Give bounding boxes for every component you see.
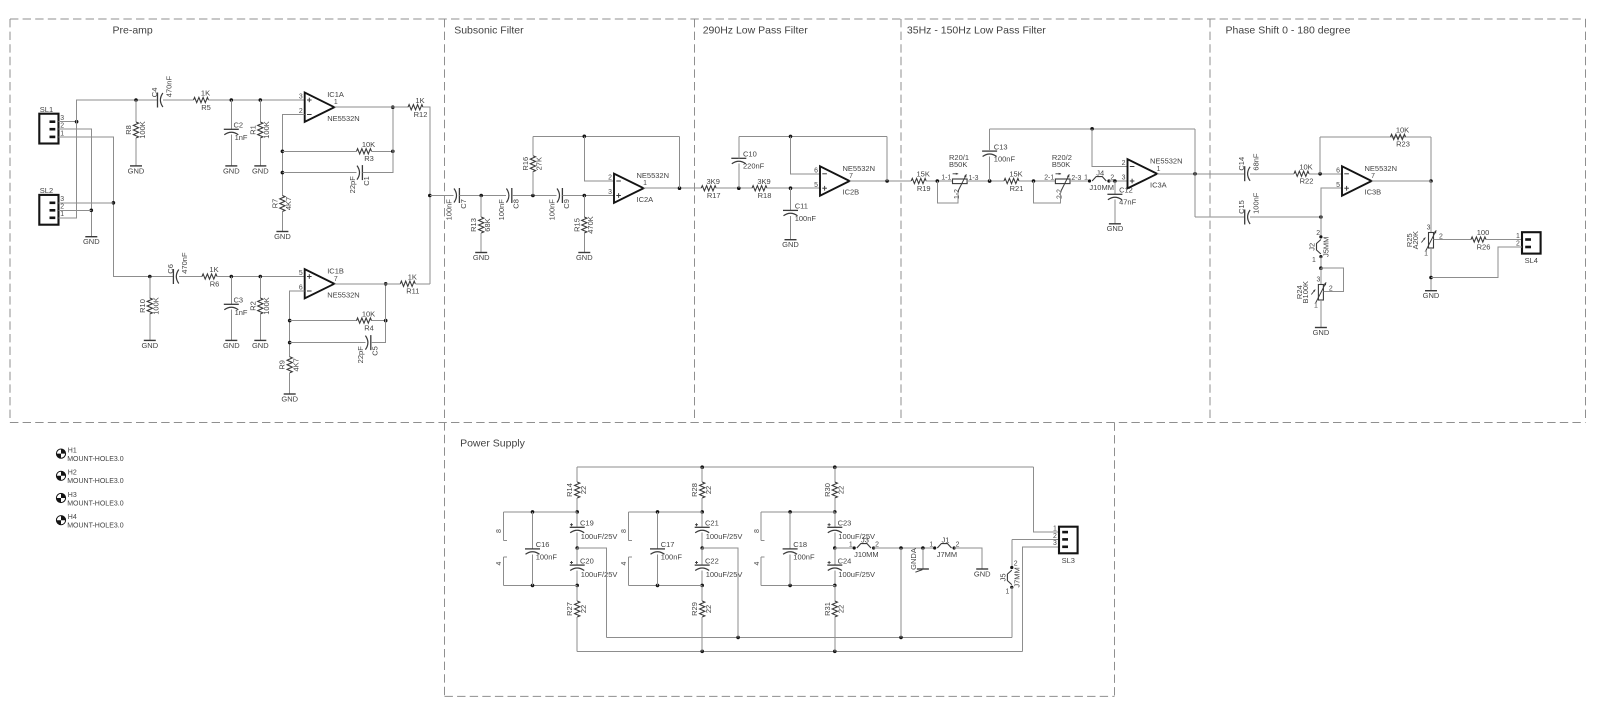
- resistor R14 22: [565, 482, 588, 498]
- wire R28 top: [701, 467, 703, 482]
- wire C18 branch bottom: [761, 584, 835, 586]
- svg-text:NE5532N: NE5532N: [327, 290, 360, 299]
- wire R22 to IC3B -: [1309, 173, 1342, 175]
- wire IC1B output: [334, 283, 400, 285]
- wire C19 to mid: [576, 533, 578, 548]
- svg-text:100nF: 100nF: [497, 199, 506, 221]
- wire R10 top: [149, 277, 151, 299]
- svg-text:C8: C8: [511, 199, 520, 209]
- svg-text:J3: J3: [861, 535, 869, 544]
- wire R29 top: [701, 585, 703, 601]
- wire pot1 to R21: [967, 180, 1004, 182]
- node R3 right junction: [391, 150, 395, 154]
- wire IC supply pin 8 stub: [628, 512, 631, 541]
- svg-text:1: 1: [1157, 166, 1161, 173]
- svg-text:7: 7: [1371, 173, 1375, 180]
- wire SL3 pin2 down to J5: [1011, 539, 1013, 567]
- mount hole H4 MOUNT-HOLE3.0: [56, 514, 123, 530]
- svg-text:Power Supply: Power Supply: [460, 438, 526, 450]
- svg-text:GND: GND: [576, 253, 593, 262]
- jumper J4 J10MM: [1084, 168, 1114, 192]
- ground under R15: [576, 253, 593, 262]
- svg-text:2: 2: [1516, 240, 1520, 247]
- svg-text:4: 4: [496, 561, 503, 565]
- resistor R21 15K: [1004, 170, 1023, 193]
- wire C24 top: [834, 548, 836, 565]
- svg-text:100nF: 100nF: [994, 155, 1016, 164]
- wire R31 top: [834, 585, 836, 601]
- wire C21 top: [701, 512, 703, 527]
- capacitor C1 22pF: [348, 165, 371, 193]
- svg-text:2: 2: [608, 175, 612, 182]
- jumper J3 J10MM: [849, 535, 879, 559]
- wire J3 to J1: [874, 547, 935, 549]
- capacitor C10 220nF: [731, 150, 764, 171]
- node C12 tap: [1113, 179, 1117, 183]
- wire R19 to pot R20/1: [926, 180, 952, 182]
- wire R23 down to output: [1430, 137, 1432, 181]
- wire R18 to IC2B +: [767, 187, 820, 189]
- frame Pre-amp/Subsonic divider: [444, 19, 446, 696]
- wire C7 to C8: [459, 195, 505, 197]
- resistor R10 100K: [138, 297, 161, 315]
- op-amp IC2A: [608, 171, 669, 204]
- node feedback C5 tap left: [288, 341, 292, 345]
- svg-text:3: 3: [60, 115, 64, 122]
- svg-text:1: 1: [1005, 589, 1009, 596]
- wire C6 to R6: [179, 276, 202, 278]
- svg-text:10K: 10K: [1299, 162, 1312, 171]
- wire R25 wiper to R26: [1434, 239, 1472, 241]
- wire top line R8 to C4: [136, 99, 158, 101]
- wire R1 to ground: [259, 138, 261, 166]
- node pin2 drop junction 35-150: [1090, 127, 1094, 131]
- svg-text:C5: C5: [371, 346, 380, 356]
- wire C12 top: [1114, 181, 1116, 194]
- wire subsonic feedback top line: [533, 135, 680, 137]
- wire C17 top lead: [657, 512, 659, 549]
- wire C3 top: [230, 277, 232, 305]
- svg-text:NE5532N: NE5532N: [1365, 164, 1398, 173]
- svg-text:10K: 10K: [1396, 126, 1409, 135]
- wire IC supply pin 4 stub: [503, 557, 506, 585]
- label IC supply pin 4: [754, 561, 761, 565]
- ground GNDA: [909, 548, 929, 572]
- wire C16 branch bottom: [503, 584, 577, 586]
- ground under R2: [252, 340, 269, 349]
- wire R11 to summing node: [415, 283, 430, 285]
- wire SL3 pin2 line: [1012, 538, 1059, 540]
- label IC supply pin 8: [621, 529, 628, 533]
- svg-text:R28: R28: [690, 483, 699, 497]
- svg-text:B100K: B100K: [1301, 281, 1310, 304]
- svg-text:1: 1: [60, 211, 64, 218]
- capacitor C21 100uF/25V: [695, 519, 743, 542]
- wire C11 top: [790, 188, 792, 210]
- wire C20 top: [576, 548, 578, 565]
- svg-text:R16: R16: [521, 157, 530, 171]
- svg-text:R7: R7: [270, 199, 279, 209]
- wire C5 right up to output: [371, 284, 386, 343]
- resistor R19 15K: [911, 170, 930, 193]
- wire C4 to R5: [163, 99, 194, 101]
- capacitor C17 100nF: [650, 540, 682, 561]
- wire R29 bottom: [701, 617, 703, 651]
- wire J1 to GND: [954, 548, 982, 569]
- svg-text:GND: GND: [252, 341, 269, 350]
- node C17 bottom: [656, 584, 660, 588]
- wire stage1 mid link: [577, 548, 606, 637]
- wire C15 to plus node: [1250, 216, 1321, 218]
- wire 35-150Hz feedback top line: [990, 128, 1195, 130]
- ground under R9: [281, 394, 298, 403]
- node C22 bottom: [700, 584, 704, 588]
- capacitor C13 100nF: [982, 142, 1015, 163]
- svg-text:2: 2: [875, 541, 879, 548]
- svg-text:5: 5: [1336, 182, 1340, 189]
- svg-text:22pF: 22pF: [356, 346, 365, 364]
- wire C13 bottom: [989, 157, 991, 182]
- svg-text:SL1: SL1: [40, 105, 53, 114]
- svg-text:15K: 15K: [1009, 170, 1022, 179]
- node top rail stage2: [700, 465, 704, 469]
- svg-text:68K: 68K: [483, 218, 492, 231]
- svg-text:100uF/25V: 100uF/25V: [838, 570, 875, 579]
- capacitor C24 100uF/25V: [827, 556, 875, 579]
- resistor R29 22: [690, 601, 713, 617]
- wire C24 bottom: [834, 571, 836, 586]
- svg-text:100: 100: [1477, 228, 1490, 237]
- svg-text:470K: 470K: [586, 216, 595, 234]
- svg-text:35Hz - 150Hz Low Pass Filter: 35Hz - 150Hz Low Pass Filter: [907, 25, 1046, 37]
- wire IC3B pin5 down: [1321, 188, 1342, 237]
- svg-text:22: 22: [704, 486, 713, 494]
- svg-text:100uF/25V: 100uF/25V: [706, 532, 743, 541]
- svg-text:1: 1: [929, 541, 933, 548]
- wire bottom line to C6: [113, 276, 173, 278]
- wire C18 bottom lead: [789, 554, 791, 585]
- svg-text:R11: R11: [406, 287, 419, 296]
- svg-text:R12: R12: [414, 110, 428, 119]
- node SL1 pin3 junction: [75, 120, 79, 124]
- svg-text:2: 2: [1053, 533, 1057, 540]
- node R13 tap: [479, 194, 483, 198]
- svg-text:22pF: 22pF: [348, 176, 357, 194]
- ground under SL connectors: [83, 237, 100, 246]
- node C18 top: [788, 510, 792, 514]
- svg-text:6: 6: [814, 167, 818, 174]
- wire 290Hz feedback top line: [739, 135, 887, 137]
- svg-text:C22: C22: [705, 556, 719, 565]
- svg-text:1: 1: [643, 180, 647, 187]
- svg-text:R27: R27: [565, 602, 574, 616]
- wire mid bus: [606, 636, 1011, 638]
- frame middle border: [10, 422, 1586, 424]
- wire stage3 mid to J3: [835, 547, 854, 549]
- svg-text:4: 4: [621, 561, 628, 565]
- svg-text:10K: 10K: [362, 309, 375, 318]
- svg-text:100nF: 100nF: [548, 199, 557, 221]
- svg-text:R3: R3: [364, 154, 374, 163]
- svg-text:C17: C17: [661, 540, 675, 549]
- wire R7 to ground: [281, 212, 283, 232]
- resistor R13 68K: [469, 217, 492, 233]
- svg-text:GND: GND: [1313, 328, 1330, 337]
- capacitor C9 100nF: [548, 188, 571, 220]
- wire C18 branch top: [761, 511, 835, 513]
- svg-text:22: 22: [837, 486, 846, 494]
- potentiometer R20/2 B50K: [1044, 153, 1081, 199]
- wire R9 to ground: [289, 373, 291, 394]
- svg-text:IC1B: IC1B: [327, 267, 344, 276]
- op-amp IC3A: [1122, 157, 1183, 190]
- wire R3 right: [372, 150, 393, 152]
- resistor R26 100: [1471, 228, 1490, 251]
- resistor R15 470K: [572, 216, 595, 234]
- svg-text:1: 1: [849, 541, 853, 548]
- svg-text:MOUNT-HOLE3.0: MOUNT-HOLE3.0: [67, 456, 124, 463]
- svg-text:10K: 10K: [362, 140, 375, 149]
- wire output down to R25: [1430, 181, 1432, 233]
- label IC supply pin 4: [621, 561, 628, 565]
- node R22/R23 junction: [1318, 172, 1322, 176]
- wire J4 to IC3A +: [1109, 180, 1128, 182]
- frame 290Hz/35-150Hz divider: [900, 19, 902, 423]
- wire R14 bottom: [576, 498, 578, 512]
- svg-text:H4: H4: [68, 514, 77, 521]
- node SL2 pin2 junction: [90, 209, 94, 213]
- frame Subsonic/290Hz divider: [694, 19, 696, 423]
- op-amp IC3B: [1336, 164, 1397, 197]
- capacitor C3 1nF: [224, 296, 248, 317]
- capacitor C16 100nF: [525, 540, 557, 561]
- svg-text:3K9: 3K9: [707, 177, 720, 186]
- svg-text:2: 2: [299, 108, 303, 115]
- wire C10 top to feedback line: [738, 136, 740, 158]
- wire C5 left: [290, 342, 366, 344]
- wire C16 bottom lead: [532, 554, 534, 585]
- frame power supply bottom border: [445, 695, 1115, 697]
- svg-text:J7MM: J7MM: [937, 550, 957, 559]
- capacitor C15 100nF: [1237, 192, 1260, 224]
- svg-text:2: 2: [1122, 160, 1126, 167]
- wire C8 to C9: [512, 195, 557, 197]
- wire C16 branch top: [503, 511, 577, 513]
- wire C1 left: [282, 172, 356, 174]
- svg-text:100uF/25V: 100uF/25V: [838, 532, 875, 541]
- svg-text:4K7: 4K7: [292, 358, 301, 371]
- svg-text:J10MM: J10MM: [854, 550, 879, 559]
- wire C10 bottom: [738, 164, 740, 189]
- svg-text:2-1: 2-1: [1044, 175, 1054, 182]
- wire SL1 pin2 down to GND: [59, 129, 92, 237]
- capacitor C14 68nF: [1237, 153, 1260, 181]
- svg-text:1: 1: [1314, 303, 1318, 310]
- svg-text:MOUNT-HOLE3.0: MOUNT-HOLE3.0: [67, 500, 124, 507]
- wire R23 top line: [1320, 136, 1431, 138]
- wire pin2 drop to IC3A -: [1092, 129, 1127, 167]
- svg-text:2: 2: [60, 123, 64, 130]
- resistor R11 1K: [400, 272, 419, 295]
- wire R2 to ground: [259, 314, 261, 340]
- ground under C12: [1107, 224, 1124, 233]
- svg-text:68nF: 68nF: [1252, 153, 1261, 171]
- node SL2 pin3 junction: [112, 201, 116, 205]
- node R16 tap: [531, 194, 535, 198]
- svg-text:GND: GND: [128, 166, 145, 175]
- wire R28 bottom: [701, 498, 703, 512]
- wire R4 right: [372, 320, 386, 322]
- svg-text:R14: R14: [565, 483, 574, 497]
- resistor R4 10K: [357, 309, 376, 332]
- svg-text:J4: J4: [1096, 168, 1104, 177]
- svg-text:1-1: 1-1: [941, 175, 951, 182]
- svg-text:47nF: 47nF: [1119, 198, 1137, 207]
- wire C17 bottom lead: [657, 554, 659, 585]
- svg-text:3: 3: [1317, 276, 1321, 283]
- wire SL4 pin2 to ground node: [1431, 247, 1522, 278]
- svg-text:R6: R6: [210, 279, 220, 288]
- resistor R22 10K: [1294, 162, 1313, 185]
- wire R16 top to feedback line: [532, 136, 534, 155]
- resistor R31 22: [823, 601, 846, 617]
- svg-text:100nF: 100nF: [536, 552, 558, 561]
- svg-text:1: 1: [1053, 526, 1057, 533]
- op-amp IC1A: [299, 90, 360, 123]
- mount hole H3 MOUNT-HOLE3.0: [56, 492, 123, 508]
- wire C23 to mid: [834, 533, 836, 548]
- svg-text:22: 22: [837, 605, 846, 613]
- potentiometer R25 A20K: [1405, 224, 1443, 257]
- op-amp IC1B: [299, 267, 360, 300]
- label C4 value: [164, 76, 173, 98]
- svg-text:R23: R23: [1396, 140, 1410, 149]
- wire C12 to ground: [1114, 200, 1116, 224]
- jumper J2 J5MM: [1307, 230, 1330, 264]
- wire C11 to ground: [790, 216, 792, 240]
- capacitor C18 100nF: [783, 540, 815, 561]
- wire R27 top: [576, 585, 578, 601]
- wire IC2B feedback riser: [886, 136, 888, 181]
- wire R25 bottom to ground node: [1430, 248, 1432, 291]
- svg-text:100K: 100K: [262, 297, 271, 315]
- wire R30 bottom: [834, 498, 836, 512]
- svg-text:2: 2: [1316, 230, 1320, 237]
- svg-text:3: 3: [1053, 540, 1057, 547]
- wire R24 wiper loop: [1321, 268, 1344, 291]
- wire riser SL1.3/SL2.1 to top line: [59, 100, 137, 218]
- ground GND power: [974, 569, 991, 578]
- wire IC1A pin2 feedback left: [282, 115, 304, 196]
- svg-text:SL4: SL4: [1525, 256, 1538, 265]
- resistor R9 4K7: [278, 357, 301, 373]
- svg-text:C15: C15: [1237, 200, 1246, 214]
- svg-text:NE5532N: NE5532N: [327, 114, 360, 123]
- connector SL4: [1516, 232, 1541, 265]
- wire R13 top: [480, 196, 482, 218]
- potentiometer R20/1 B50K: [941, 153, 978, 199]
- svg-text:2: 2: [60, 204, 64, 211]
- svg-text:C18: C18: [793, 540, 807, 549]
- node stage mid C21/C22: [700, 546, 704, 550]
- wire R27 bottom: [576, 617, 578, 651]
- svg-text:470nF: 470nF: [164, 76, 173, 98]
- node C15 plus junction: [1319, 215, 1323, 219]
- capacitor C5 22pF: [356, 335, 379, 363]
- svg-text:A20K: A20K: [1411, 231, 1420, 249]
- wire C19 top: [576, 512, 578, 527]
- wire SL1 pin1 down to bottom line: [59, 137, 150, 277]
- svg-text:R10: R10: [138, 299, 147, 313]
- svg-text:IC3A: IC3A: [1150, 180, 1167, 189]
- wire pot1 wiper loop: [937, 181, 958, 203]
- ground under R10: [141, 340, 158, 349]
- svg-text:R15: R15: [572, 218, 581, 232]
- svg-text:C9: C9: [562, 199, 571, 209]
- svg-text:8: 8: [621, 529, 628, 533]
- wire R13 to ground: [480, 233, 482, 253]
- frame left border: [9, 19, 11, 423]
- wire IC1A output: [334, 106, 408, 108]
- svg-text:R9: R9: [278, 360, 287, 370]
- svg-text:1K: 1K: [408, 272, 417, 281]
- svg-text:C10: C10: [743, 150, 757, 159]
- node C13 tap: [988, 179, 992, 183]
- wire R21 to pot R20/2: [1019, 180, 1055, 182]
- node pin6 drop junction: [789, 135, 793, 139]
- node GNDA tap: [921, 546, 925, 550]
- wire C3 to ground: [230, 310, 232, 341]
- wire C15 line left: [1195, 216, 1245, 218]
- wire R23 riser: [1319, 137, 1321, 174]
- wire R24 top pin: [1320, 268, 1322, 284]
- svg-text:1K: 1K: [201, 89, 210, 98]
- svg-text:8: 8: [496, 529, 503, 533]
- svg-text:R17: R17: [707, 191, 721, 200]
- svg-text:GND: GND: [141, 341, 158, 350]
- resistor R6 1K: [202, 265, 219, 288]
- wire C17 branch top: [628, 511, 702, 513]
- svg-text:1K: 1K: [415, 96, 424, 105]
- svg-text:GND: GND: [473, 253, 490, 262]
- wire C1 right up to output: [362, 107, 392, 173]
- svg-text:GND: GND: [223, 341, 240, 350]
- node IC2A feedback junction: [678, 186, 682, 190]
- wire power supply top rail: [577, 466, 1033, 468]
- svg-text:R5: R5: [201, 103, 211, 112]
- node bottom rail stage2: [700, 650, 704, 654]
- capacitor C11 100nF: [783, 202, 816, 223]
- wire C13 top to feedback line: [989, 129, 991, 151]
- svg-text:GND: GND: [83, 237, 100, 246]
- wire IC supply pin 4 stub: [761, 557, 764, 585]
- ground under R24: [1313, 328, 1330, 337]
- svg-text:J10MM: J10MM: [1089, 183, 1114, 192]
- svg-text:3: 3: [1122, 175, 1126, 182]
- wire IC1B pin6 feedback left: [290, 291, 305, 357]
- wire C22 bottom: [701, 571, 703, 586]
- svg-text:C1: C1: [362, 176, 371, 186]
- svg-text:NE5532N: NE5532N: [637, 171, 670, 180]
- resistor R1 100K: [248, 121, 271, 139]
- label IC supply pin 4: [496, 561, 503, 565]
- node bottom rail stage3: [833, 650, 837, 654]
- svg-text:H1: H1: [68, 447, 77, 454]
- svg-text:IC2B: IC2B: [843, 188, 860, 197]
- svg-text:R31: R31: [823, 602, 832, 616]
- node C21 top: [700, 510, 704, 514]
- resistor R12 1K: [408, 96, 427, 119]
